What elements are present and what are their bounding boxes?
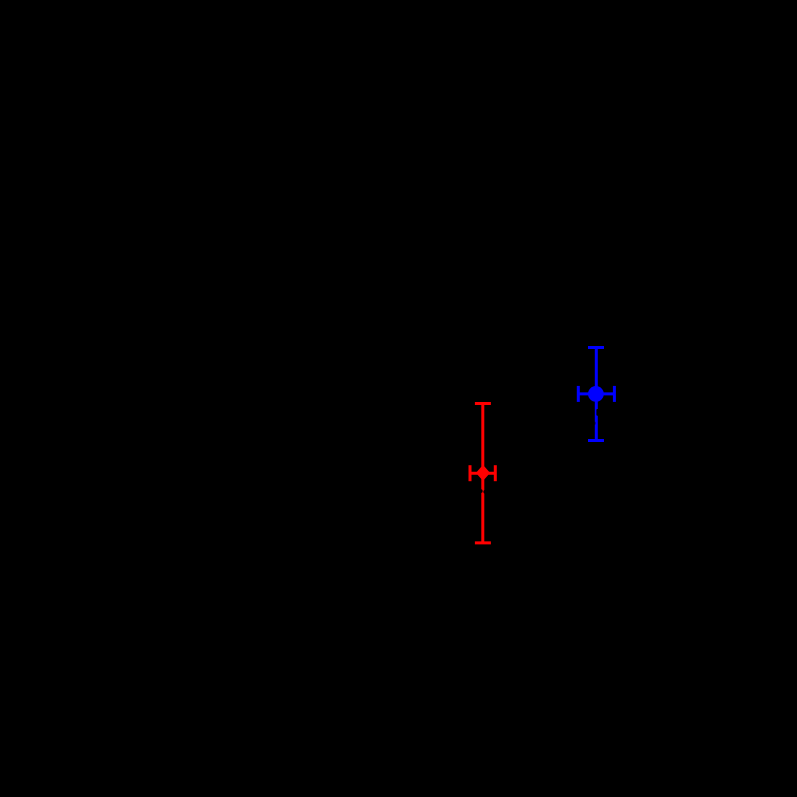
blue errorbar right cap [613,386,616,402]
blue errorbar vertical line [595,348,598,441]
blue circle marker [588,386,604,402]
faint black ink on left edge of blue line [594,422,596,425]
blue errorbar horizontal line [578,392,614,395]
red diamond marker [476,465,490,481]
red errorbar left cap [469,465,472,481]
red errorbar right cap [494,465,497,481]
red errorbar bottom cap [475,541,491,544]
red errorbar vertical line [481,404,484,543]
black ink occluding right half of blue line [596,409,599,416]
red errorbar top cap [475,402,491,405]
blue errorbar left cap [577,386,580,402]
blue errorbar bottom cap [588,439,604,442]
red errorbar horizontal line [470,472,495,475]
black ink pinching red line, left blob [480,489,483,493]
black ink pinching red line, right blob [483,490,486,494]
blue errorbar top cap [588,346,604,349]
